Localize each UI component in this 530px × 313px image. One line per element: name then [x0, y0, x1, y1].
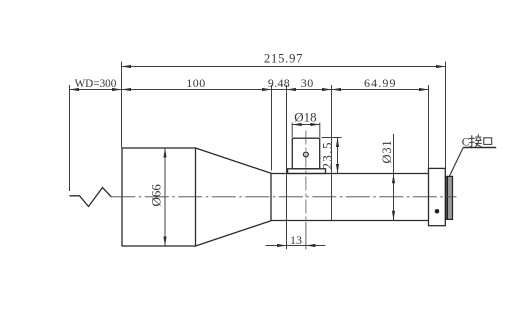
svg-text:Ø66: Ø66 [149, 184, 164, 207]
svg-text:Ø18: Ø18 [294, 110, 316, 125]
svg-text:64.99: 64.99 [364, 76, 397, 90]
svg-text:13: 13 [290, 233, 302, 247]
svg-text:30: 30 [301, 76, 314, 90]
svg-text:C: C [462, 134, 470, 148]
svg-text:9.48: 9.48 [268, 76, 290, 90]
svg-text:215.97: 215.97 [264, 52, 303, 66]
svg-text:WD=300: WD=300 [75, 78, 117, 90]
svg-text:Ø31: Ø31 [380, 140, 394, 164]
svg-text:100: 100 [186, 76, 206, 90]
svg-text:23.5: 23.5 [320, 141, 335, 169]
